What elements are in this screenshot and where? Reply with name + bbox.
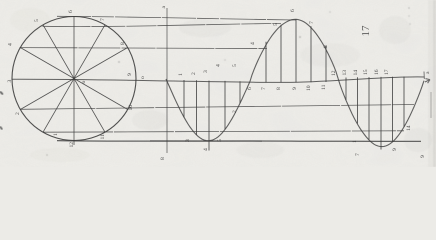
ordinate t2 — [196, 80, 198, 135]
ordinate c3 (peak) — [295, 19, 297, 82]
ordinate t4 — [224, 81, 226, 129]
bottom tangent projection line — [57, 140, 421, 143]
30deg upper chord projection line — [20, 48, 268, 49]
top tangent projection line — [57, 16, 296, 20]
ordinate r6 — [403, 77, 405, 128]
arrowhead at curve end — [425, 79, 430, 84]
svg-text:10: 10 — [306, 85, 312, 91]
spoke 5-11 (150deg) — [20, 48, 127, 110]
svg-text:4: 4 — [216, 64, 222, 67]
vertical reference line a-b at wave origin — [166, 8, 168, 153]
svg-text:7: 7 — [261, 87, 267, 90]
soft toner blotches — [10, 8, 432, 162]
spoke 12-6 vertical — [73, 17, 75, 146]
svg-text:o: o — [140, 76, 146, 79]
svg-text:5: 5 — [273, 23, 279, 26]
spoke 2-8 (60deg) — [43, 25, 105, 132]
svg-text:2: 2 — [191, 72, 197, 75]
ordinate r3 — [368, 77, 370, 140]
svg-text:14: 14 — [353, 70, 359, 76]
sine curve trough 2 — [338, 78, 424, 146]
svg-text:5: 5 — [217, 139, 223, 142]
svg-text:6: 6 — [68, 10, 74, 13]
svg-text:13: 13 — [342, 70, 348, 76]
axis end tick — [423, 72, 425, 80]
svg-text:7: 7 — [355, 153, 361, 156]
ordinate t5 — [239, 81, 241, 103]
svg-text:2: 2 — [232, 110, 238, 113]
sine curve trough 1 — [166, 79, 250, 141]
ordinate r4 — [380, 77, 382, 150]
30deg lower chord projection line — [20, 105, 414, 110]
svg-text:7: 7 — [100, 18, 106, 21]
svg-text:6: 6 — [290, 9, 296, 12]
svg-text:o: o — [81, 81, 87, 84]
60deg upper chord projection line — [43, 23, 282, 26]
circle — [12, 17, 136, 141]
svg-text:9: 9 — [292, 87, 298, 90]
svg-text:1: 1 — [352, 140, 358, 143]
svg-text:17: 17 — [384, 69, 390, 75]
svg-text:4: 4 — [203, 148, 209, 151]
svg-text:4: 4 — [250, 42, 256, 45]
svg-text:4: 4 — [8, 43, 14, 46]
svg-text:17: 17 — [360, 25, 372, 37]
ordinate r2 — [357, 77, 359, 123]
ordinate c1 — [265, 42, 267, 83]
svg-text:10: 10 — [128, 105, 134, 111]
spoke 1-7 (30deg) — [20, 48, 127, 110]
horizontal axis line — [12, 77, 425, 83]
svg-text:16: 16 — [374, 69, 380, 75]
ordinate r1 — [345, 78, 347, 101]
ordinate c4 — [310, 26, 312, 82]
svg-text:2: 2 — [15, 112, 21, 115]
svg-text:1: 1 — [53, 133, 59, 136]
svg-text:5: 5 — [232, 64, 238, 67]
svg-text:8: 8 — [160, 157, 166, 160]
svg-text:15: 15 — [363, 69, 369, 75]
svg-text:8: 8 — [276, 87, 282, 90]
left page-edge tick 1 — [0, 92, 3, 95]
left page-edge tick 2 — [0, 127, 2, 130]
svg-text:1: 1 — [178, 73, 184, 76]
svg-text:9: 9 — [420, 155, 426, 158]
svg-text:9: 9 — [392, 148, 398, 151]
svg-text:3: 3 — [185, 139, 191, 142]
ordinate t3 — [208, 81, 210, 151]
svg-text:9: 9 — [127, 73, 133, 76]
ordinate t1 — [183, 80, 185, 117]
svg-text:12: 12 — [331, 70, 337, 76]
ordinate r5 — [392, 77, 394, 142]
short right-edge vertical — [430, 92, 432, 118]
ordinate c5 — [325, 46, 327, 82]
sine curve crest — [250, 19, 338, 81]
svg-text:11: 11 — [321, 84, 327, 90]
svg-text:3: 3 — [7, 80, 13, 83]
svg-text:6: 6 — [247, 87, 253, 90]
svg-text:11: 11 — [100, 134, 106, 140]
60deg lower chord projection line — [43, 131, 404, 132]
svg-text:3: 3 — [203, 70, 209, 73]
svg-text:7: 7 — [309, 21, 315, 24]
paper background — [0, 0, 436, 167]
scattered scan specks — [46, 7, 410, 155]
svg-text:8: 8 — [120, 42, 126, 45]
right page edge shading — [428, 0, 436, 167]
svg-text:12: 12 — [69, 142, 75, 148]
ordinate c2 — [280, 25, 282, 83]
spoke 4-10 (120deg) — [43, 25, 105, 132]
